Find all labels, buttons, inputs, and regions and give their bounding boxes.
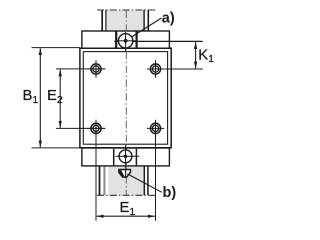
leader line b) [127,174,161,192]
lube nipple bottom: crosshair vertical [125,145,127,168]
lube nipple top: crosshair vertical [125,32,127,52]
rail lower segment grey fill [103,166,143,195]
nipple block top left edge [115,31,117,48]
E1 left extension line [95,132,97,221]
rail upper inner left edge [105,10,107,31]
end plate bottom [82,148,169,166]
svg-text:B1: B1 [23,88,39,106]
grease fitting head on rail (pentagon below bottom end plate) [119,170,131,178]
lube nipple top: center dot [124,39,128,43]
svg-text:b): b) [163,185,177,201]
B1 top extension line [32,47,80,49]
rail lower outer right edge [147,166,149,195]
E2 bottom extension line [56,127,106,129]
B1 dimension line [39,48,41,147]
rail lower white stripe [106,166,108,195]
rail centerline (vertical dash-dot) [125,11,127,196]
lube nipple bottom: crosshair inside [125,150,127,163]
mounting hole bottom-left [87,120,104,137]
E1 right extension line [155,132,157,221]
nipple block top right edge [136,31,138,48]
mounting hole bottom-right [147,120,164,137]
rail lower inner left edge [103,166,105,195]
nipple block bottom right edge [135,149,137,166]
K1 bottom extension line [164,68,203,70]
lube nipple top: outer circle [118,34,132,48]
svg-text:K1: K1 [198,47,214,65]
leader line a) [132,18,162,37]
end plate top internal edge left stub [114,40,118,42]
rail break line top (dash-dot) [97,9,156,11]
E1 dimension line [97,215,155,217]
rail upper segment grey fill [106,10,143,31]
rail upper outer right edge [147,10,149,31]
E2 dimension line [59,70,61,128]
saddle inner rectangle [83,52,167,145]
rail lower outer left edge [99,166,101,195]
svg-text:E1: E1 [120,200,136,218]
mounting hole top-right [147,60,164,77]
lube nipple top: crosshair inside [125,34,127,48]
rail break line bottom (dash-dot) [97,194,156,196]
rail upper inner right edge [143,10,145,31]
K1 dimension line [195,42,197,68]
E2 top extension line [56,68,106,70]
svg-text:a): a) [162,11,175,27]
lube nipple bottom: center dot [124,155,128,159]
end plate top [82,31,169,48]
lube nipple bottom: crosshair horizontal [115,155,139,157]
end plate top internal edge / K1 top extension [133,40,203,42]
lube nipple bottom: outer circle [119,150,132,163]
rail lower inner right edge [143,166,145,195]
rail upper outer left edge [101,10,103,31]
lube nipple top: crosshair horizontal [117,40,136,42]
nipple block bottom left edge [113,149,115,166]
saddle outer rectangle [80,48,171,148]
B1 bottom extension line [32,147,80,149]
mounting hole top-left [87,60,104,77]
